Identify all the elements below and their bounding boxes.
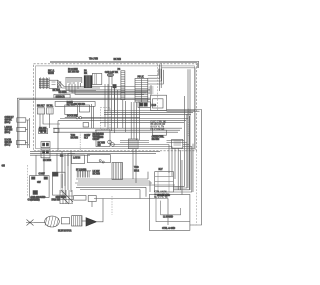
fsl block (113, 85, 116, 88)
svg-text:BK: BK (84, 73, 88, 75)
svg-text:BK-WH: BK-WH (71, 138, 79, 140)
left switch row 2 (17, 127, 26, 131)
wire bundle cluster left (39, 78, 49, 89)
bus into text block (110, 141, 172, 147)
hatched box in chain (72, 216, 82, 226)
svg-text:DLB: DLB (152, 105, 157, 107)
cab light lamp (107, 73, 113, 76)
svg-text:TB-1 WH: TB-1 WH (89, 59, 98, 61)
svg-text:CTRL & GND: CTRL & GND (162, 228, 176, 230)
wedge connector pair (86, 218, 97, 226)
latch connector hatched (112, 163, 123, 180)
lock switch box lower (41, 149, 50, 158)
dash pair (59, 81, 61, 88)
svg-text:L1 N GND: L1 N GND (163, 216, 173, 218)
svg-text:BK WH RD OR: BK WH RD OR (154, 194, 169, 196)
bottom right box (149, 195, 190, 231)
bottom right box title block (154, 191, 169, 200)
zone divider dashed (157, 64, 159, 110)
svg-text:BK RL: BK RL (47, 106, 54, 108)
svg-text:RLY: RLY (84, 137, 89, 139)
right edge dashed continues (190, 151, 197, 225)
connector P5 double column (135, 79, 148, 103)
control board box (152, 130, 166, 135)
wires bends from bus to verticals (167, 141, 192, 193)
svg-text:BLW MOTOR: BLW MOTOR (58, 231, 72, 233)
conv motor box A (30, 176, 49, 198)
svg-text:LATCH: LATCH (73, 157, 81, 160)
door jamb circles (99, 160, 101, 162)
dlb relay box (138, 102, 150, 108)
svg-text:(N.O.): (N.O.) (5, 122, 11, 124)
wires above conv boxes (36, 151, 75, 175)
dashed divider mid (79, 132, 81, 152)
stack feed verticals (169, 145, 175, 180)
tick row connector mid bottom (77, 170, 92, 172)
svg-text:(N.C.): (N.C.) (5, 132, 11, 134)
small box in chain (61, 218, 69, 224)
relay block right (151, 95, 167, 110)
bus wires mid (30, 151, 128, 155)
wire chain (34, 222, 45, 224)
box right of P3 (92, 74, 102, 85)
tangle bottom left cluster (60, 190, 73, 204)
svg-text:BU GY YL TN: BU GY YL TN (154, 197, 168, 199)
svg-text:CTRL HARN: CTRL HARN (154, 191, 167, 194)
dashed drop right (187, 109, 189, 136)
dashed vertical bottom mid (111, 196, 113, 215)
svg-text:DOOR SW: DOOR SW (67, 116, 78, 118)
inner console box right edge (160, 63, 162, 91)
comp bottom (88, 196, 96, 202)
latch box A (72, 155, 85, 164)
wire routing from bundle (58, 80, 151, 93)
wire chain 2 (82, 220, 86, 222)
svg-text:BK: BK (64, 92, 68, 94)
wire band bottom mid (75, 179, 175, 190)
terminal block TB wires along top (50, 61, 199, 62)
dashed wire row 3 (19, 144, 29, 146)
control board text block (151, 122, 167, 131)
center box bake relay (65, 105, 78, 115)
wire band drops (140, 172, 150, 199)
connector pin row P2 (66, 77, 83, 79)
svg-text:BK WH: BK WH (93, 173, 101, 175)
dashed sensor enclosure (101, 108, 111, 130)
svg-text:PK VT BR GN: PK VT BR GN (151, 129, 165, 131)
svg-text:BK-WH: BK-WH (152, 139, 160, 141)
conv fan box B (53, 172, 66, 195)
svg-text:BK-2: BK-2 (134, 171, 140, 173)
svg-text:(GREEN): (GREEN) (31, 200, 40, 202)
console enclosure dashed outer box (34, 64, 197, 151)
svg-text:GN: GN (2, 166, 6, 168)
door switch wire (65, 117, 140, 119)
oven sensor box (96, 130, 110, 147)
center box broil relay (80, 105, 90, 112)
svg-text:GRN GND: GRN GND (56, 197, 67, 199)
wide box B (87, 155, 110, 163)
console enclosure inner border (36, 66, 195, 149)
svg-text:RLY: RLY (159, 169, 164, 171)
wide header rect (55, 102, 95, 107)
ribbon connector P4 ladder (121, 71, 125, 100)
wires P5 to right corners up (148, 69, 164, 84)
oven sensor box label (54, 94, 70, 98)
wires from P4 P5 down (123, 100, 140, 140)
blower motor oval hatched (45, 216, 60, 227)
terminal box right of bundle (49, 80, 57, 88)
wires below relays (40, 114, 60, 151)
dashed divider left bottom (26, 165, 28, 197)
right long verticals from top (197, 61, 198, 68)
bottom right inner box (156, 198, 190, 222)
relay K1 (37, 108, 44, 114)
bottom chain ground terminal (26, 220, 34, 226)
oven light circles (108, 140, 112, 144)
ticks above relay block (149, 87, 154, 93)
hatched box mid (128, 139, 138, 149)
svg-text:OR GY: OR GY (93, 139, 100, 141)
small box row bottom (74, 196, 86, 201)
small comp (83, 123, 89, 128)
svg-text:SENSOR: SENSOR (56, 96, 66, 98)
svg-text:BR RLY: BR RLY (37, 106, 45, 108)
long bottom wire (94, 199, 168, 226)
svg-text:BK WH: BK WH (114, 59, 122, 61)
mid verticals to band (62, 151, 71, 192)
svg-text:WH N: WH N (48, 73, 54, 75)
door switch circles (76, 117, 78, 119)
wire from chain to right (97, 199, 104, 222)
wires from relay block right (167, 110, 202, 226)
connector box right of control board (172, 140, 183, 149)
drops to band (133, 149, 136, 183)
connector block P3 dark (84, 76, 92, 88)
drop wires center (105, 84, 118, 133)
svg-text:CAB GROUND: CAB GROUND (31, 196, 46, 199)
relay K2 (47, 108, 54, 114)
wires from pin row P2 (66, 83, 150, 94)
mid small relay pair (39, 129, 48, 134)
svg-text:(N.O.): (N.O.) (5, 144, 11, 146)
left switch row 1 (17, 118, 26, 122)
svg-text:RD: RD (98, 145, 102, 147)
long bus wires mid right (104, 111, 195, 115)
left switch row 3 (17, 140, 26, 144)
stack component boxes (155, 172, 174, 192)
svg-text:BK WH RD: BK WH RD (68, 72, 79, 74)
bus wires exiting left (17, 98, 150, 99)
long verticals right (178, 148, 180, 190)
bus extension right (126, 151, 160, 153)
svg-text:TOD: TOD (134, 167, 139, 169)
lock switch box upper (41, 142, 50, 148)
wire cab light (109, 77, 115, 113)
left bus verticals (17, 98, 19, 148)
svg-text:P5 LK: P5 LK (138, 77, 144, 79)
svg-text:P2 CONN: P2 CONN (68, 69, 78, 71)
